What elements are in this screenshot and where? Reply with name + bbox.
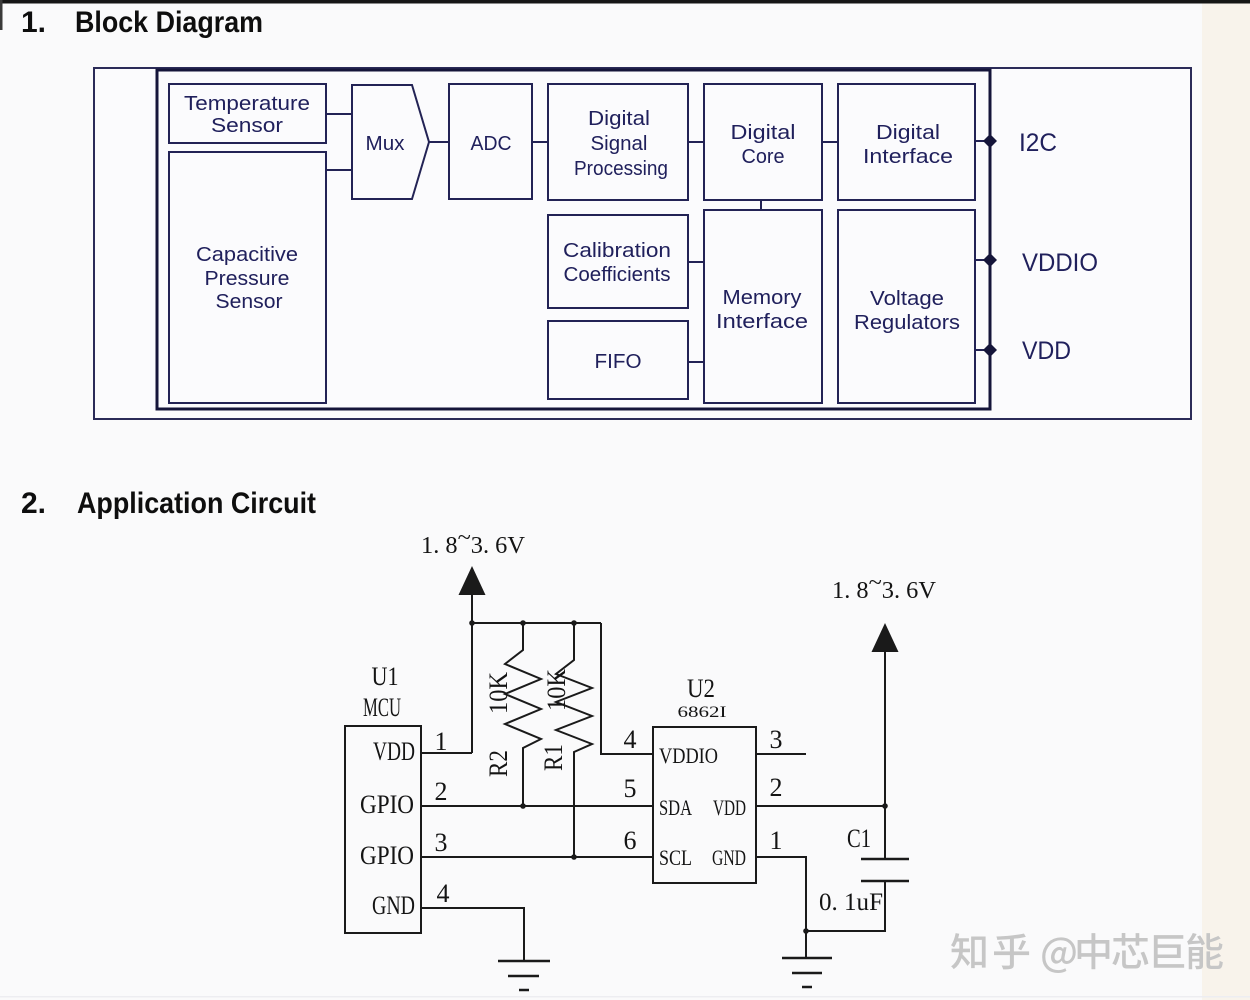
svg-text:SDA: SDA	[659, 795, 692, 820]
wire U1 GND down to ground	[421, 908, 524, 961]
resistor R2	[505, 623, 541, 806]
svg-text:U1: U1	[372, 662, 399, 691]
svg-text:I2C: I2C	[1019, 129, 1057, 157]
digital signal processing block	[548, 84, 688, 200]
ADC block	[449, 84, 532, 199]
VDD rail wire	[472, 622, 601, 624]
power arrow symbol (left)	[459, 566, 486, 595]
junction node R2/SDA	[520, 803, 526, 809]
svg-text:Signal: Signal	[591, 133, 648, 155]
bottom faint edge line	[0, 996, 1250, 998]
power arrow symbol (right)	[872, 623, 899, 652]
inner frame	[157, 70, 990, 409]
junction node rail/R2	[520, 620, 526, 626]
junction node rail/R1	[571, 620, 577, 626]
wire temp sensor to mux	[326, 113, 352, 115]
left corner dark nub	[0, 0, 3, 30]
svg-text:Memory: Memory	[723, 287, 802, 309]
svg-text:VDDIO: VDDIO	[1022, 249, 1098, 277]
svg-text:1: 1	[435, 727, 448, 756]
svg-text:Digital: Digital	[876, 122, 940, 144]
VDD pin diamond	[983, 343, 997, 357]
wire digital core to memory interface	[760, 200, 762, 210]
svg-text:Calibration: Calibration	[563, 240, 671, 262]
ground symbol (left)	[498, 961, 550, 990]
svg-text:ADC: ADC	[471, 133, 512, 155]
svg-text:2: 2	[770, 773, 783, 802]
svg-text:1.: 1.	[21, 6, 46, 39]
svg-text:6862I: 6862I	[678, 704, 727, 721]
svg-text:Temperature: Temperature	[184, 93, 310, 115]
svg-text:VDD: VDD	[373, 737, 415, 766]
svg-text:SCL: SCL	[659, 845, 692, 870]
cream right band	[1202, 3, 1250, 1000]
svg-text:GPIO: GPIO	[360, 841, 414, 870]
digital core block	[704, 84, 822, 200]
wire U2 pin3 stub	[756, 753, 806, 755]
svg-text:1: 1	[770, 826, 783, 855]
wire rail right end down to pin 4	[601, 623, 653, 754]
svg-text:U2: U2	[687, 674, 715, 703]
svg-text:Pressure: Pressure	[205, 268, 290, 290]
svg-text:Capacitive: Capacitive	[196, 244, 298, 266]
resistor R1	[556, 623, 592, 857]
svg-text:Voltage: Voltage	[870, 288, 944, 310]
svg-text:GPIO: GPIO	[360, 790, 414, 819]
svg-text:VDDIO: VDDIO	[659, 743, 718, 768]
svg-text:FIFO: FIFO	[595, 351, 642, 373]
MCU U1 box	[345, 726, 421, 933]
svg-text:10K: 10K	[542, 669, 571, 711]
svg-text:3: 3	[770, 725, 783, 754]
VDDIO pin diamond	[983, 253, 997, 267]
svg-text:6: 6	[624, 826, 637, 855]
outer frame	[94, 68, 1191, 419]
capacitive pressure sensor block	[169, 152, 326, 403]
svg-text:C1: C1	[847, 824, 871, 853]
wire capacitive sensor to mux	[326, 169, 352, 171]
voltage regulators block	[838, 210, 975, 403]
wire SCL net U1 GPIO to U2	[421, 856, 653, 858]
temperature sensor block	[169, 84, 326, 143]
wire U1 VDD to power vertical	[421, 752, 472, 754]
svg-text:Processing: Processing	[574, 158, 668, 180]
svg-text:4: 4	[437, 879, 450, 908]
digital interface block	[838, 84, 975, 200]
svg-text:GND: GND	[712, 845, 746, 870]
top dark strip	[0, 0, 1250, 4]
svg-text:R1: R1	[539, 744, 568, 771]
svg-text:3: 3	[435, 828, 448, 857]
wire power arrow down to VDD rail	[471, 595, 473, 753]
svg-text:Digital: Digital	[588, 108, 650, 130]
wire DSP to digital core	[688, 141, 704, 143]
svg-text:Interface: Interface	[716, 311, 808, 333]
wire voltage regulators to VDD pin	[975, 349, 988, 351]
svg-text:Sensor: Sensor	[211, 115, 283, 137]
calibration coefficients block	[548, 215, 688, 308]
wire FIFO to memory interface	[688, 361, 704, 363]
watermark	[951, 933, 1223, 973]
wire digital interface to I2C pin	[975, 140, 988, 142]
wire junction down to ground	[805, 931, 807, 958]
svg-text:VDD: VDD	[713, 795, 746, 820]
junction node on rail at arrow	[469, 620, 475, 626]
svg-text:Sensor: Sensor	[216, 291, 283, 313]
svg-text:Application Circuit: Application Circuit	[77, 487, 316, 520]
mux block	[352, 85, 429, 199]
svg-text:MCU: MCU	[363, 693, 401, 722]
wire C1 bottom to ground junction	[806, 881, 885, 931]
svg-text:4: 4	[624, 725, 637, 754]
junction node C1/ground	[803, 928, 809, 934]
svg-text:GND: GND	[372, 891, 415, 920]
wire digital core to digital interface	[822, 141, 838, 143]
svg-text:Mux: Mux	[366, 133, 405, 155]
svg-text:2.: 2.	[21, 487, 46, 520]
memory interface block	[704, 210, 822, 403]
wire U2 pin2 VDD to C1	[756, 805, 885, 807]
svg-text:Coefficients: Coefficients	[564, 264, 671, 286]
svg-text:0. 1uF: 0. 1uF	[819, 889, 883, 916]
capacitor C1	[861, 859, 909, 881]
wire ADC to DSP	[532, 141, 548, 143]
ground symbol (right)	[782, 958, 832, 987]
svg-text:Block Diagram: Block Diagram	[75, 6, 263, 39]
svg-text:2: 2	[435, 777, 448, 806]
wire voltage regulators to VDDIO pin	[975, 259, 988, 261]
FIFO block	[548, 321, 688, 399]
wire U2 pin1 GND to ground	[756, 857, 806, 931]
svg-text:R2: R2	[484, 750, 513, 777]
svg-text:10K: 10K	[484, 672, 513, 714]
wire power arrow down to C1	[884, 652, 886, 859]
svg-text:Interface: Interface	[863, 146, 953, 168]
svg-text:VDD: VDD	[1022, 337, 1071, 365]
svg-text:5: 5	[624, 774, 637, 803]
junction node R1/SCL	[571, 854, 577, 860]
sensor U2 box	[653, 727, 756, 883]
wire calibration to memory interface	[688, 261, 704, 263]
wire SDA net U1 GPIO to U2	[421, 805, 653, 807]
junction node pin2/C1	[882, 803, 888, 809]
svg-text:Core: Core	[742, 146, 785, 168]
I2C pin diamond	[983, 134, 997, 148]
wire mux to ADC	[429, 141, 449, 143]
svg-text:Regulators: Regulators	[854, 312, 960, 334]
svg-text:Digital: Digital	[731, 122, 796, 144]
